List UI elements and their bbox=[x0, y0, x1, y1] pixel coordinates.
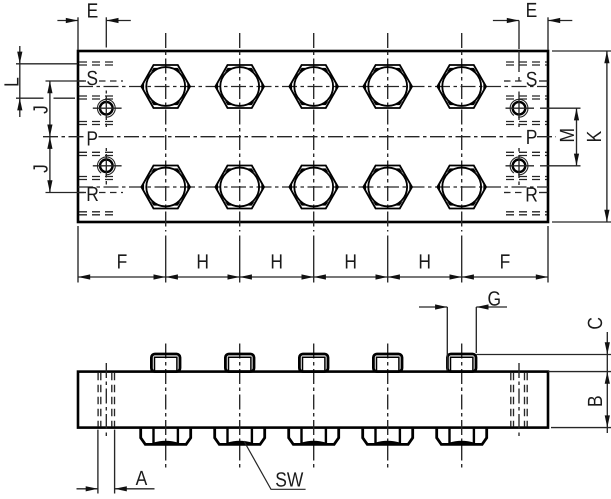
hex nut top row 1 bbox=[141, 65, 190, 108]
P channel walls bbox=[79, 121, 118, 123]
svg-text:R: R bbox=[86, 183, 99, 206]
R channel walls bbox=[79, 176, 118, 178]
P centerline bbox=[43, 136, 86, 138]
crosshair port bottom-right bbox=[506, 165, 535, 167]
hex nut bottom row 3 bbox=[289, 166, 338, 209]
dimension L bbox=[16, 63, 78, 65]
side centerline column 2 bbox=[239, 344, 241, 470]
svg-text:J: J bbox=[30, 105, 53, 114]
svg-text:S: S bbox=[526, 68, 538, 91]
crosshair port top-left bbox=[93, 107, 122, 109]
hex nut 4 (side view) bbox=[363, 429, 413, 445]
row S centerline bbox=[78, 86, 548, 88]
plate outline (top view) bbox=[78, 51, 548, 222]
port hole bottom-right bbox=[510, 157, 528, 175]
svg-text:R: R bbox=[525, 183, 538, 206]
hidden hole left bbox=[97, 373, 99, 427]
plug 2 (side view) bbox=[225, 354, 254, 372]
column centerline 4 bbox=[387, 33, 389, 232]
crosshair port bottom-left bbox=[93, 165, 122, 167]
dimension C bbox=[476, 354, 611, 356]
svg-text:L: L bbox=[1, 77, 24, 87]
port hole top-left bbox=[97, 99, 115, 117]
svg-text:P: P bbox=[526, 126, 538, 149]
hex nut bottom row 2 bbox=[215, 166, 264, 209]
svg-text:B: B bbox=[584, 395, 607, 407]
hex nut bottom row 4 bbox=[363, 166, 412, 209]
hex nut top row 5 bbox=[437, 65, 486, 108]
dimension J upper bbox=[46, 80, 85, 82]
hex nut 2 (side view) bbox=[215, 429, 265, 445]
plug 5 (side view) bbox=[447, 354, 476, 372]
column centerline 2 bbox=[239, 33, 241, 232]
dimension A bbox=[97, 430, 99, 494]
svg-text:J: J bbox=[30, 164, 53, 173]
S label line bbox=[79, 80, 86, 82]
svg-text:G: G bbox=[488, 287, 502, 310]
hex nut 3 (side view) bbox=[289, 429, 339, 445]
plug 3 (side view) bbox=[299, 354, 328, 372]
bar outline (side view) bbox=[78, 372, 548, 428]
dimension E right bbox=[518, 21, 520, 50]
svg-text:M: M bbox=[556, 128, 579, 143]
side centerline column 5 bbox=[461, 344, 463, 470]
column centerline 3 bbox=[313, 33, 315, 232]
S channel walls bbox=[79, 61, 118, 63]
svg-text:H: H bbox=[196, 251, 209, 274]
side centerline left port bbox=[105, 363, 107, 437]
port hole bottom-left bbox=[97, 157, 115, 175]
hex nut bottom row 5 bbox=[437, 166, 486, 209]
svg-text:F: F bbox=[500, 251, 511, 274]
svg-text:H: H bbox=[270, 251, 283, 274]
svg-text:E: E bbox=[526, 0, 538, 22]
hex nut 1 (side view) bbox=[141, 429, 191, 445]
dimension chain F-H-H-H-H-F bbox=[77, 226, 79, 283]
hex nut top row 2 bbox=[215, 65, 264, 108]
hex nut top row 4 bbox=[363, 65, 412, 108]
hidden hole right bbox=[510, 373, 512, 427]
dimension B bbox=[551, 427, 611, 429]
column centerline 5 bbox=[461, 33, 463, 232]
svg-text:F: F bbox=[117, 251, 128, 274]
svg-text:H: H bbox=[418, 251, 431, 274]
svg-text:S: S bbox=[86, 67, 98, 90]
dimension K bbox=[552, 50, 611, 52]
side centerline column 1 bbox=[165, 344, 167, 470]
hex nut bottom row 1 bbox=[141, 166, 190, 209]
svg-text:H: H bbox=[344, 251, 357, 274]
svg-text:K: K bbox=[583, 130, 606, 142]
R label line bbox=[79, 192, 86, 194]
side centerline right port bbox=[518, 363, 520, 437]
plug 4 (side view) bbox=[373, 354, 402, 372]
dimension E left bbox=[77, 17, 79, 50]
svg-text:A: A bbox=[136, 467, 148, 490]
dimension M bbox=[540, 107, 581, 109]
column centerline 1 bbox=[165, 33, 167, 232]
hex nut top row 3 bbox=[289, 65, 338, 108]
crosshair port top-right bbox=[506, 107, 535, 109]
label SW with leader bbox=[244, 441, 306, 489]
row R centerline bbox=[78, 186, 548, 188]
svg-text:E: E bbox=[87, 0, 99, 23]
svg-text:C: C bbox=[584, 317, 607, 330]
plug 1 (side view) bbox=[151, 354, 180, 372]
port hole top-right bbox=[510, 99, 528, 117]
dimension J lower bbox=[46, 192, 85, 194]
svg-text:P: P bbox=[86, 127, 98, 150]
svg-text:SW: SW bbox=[275, 469, 304, 492]
hex nut 5 (side view) bbox=[437, 429, 487, 445]
side centerline column 4 bbox=[387, 344, 389, 470]
dimension G bbox=[446, 307, 448, 371]
side centerline column 3 bbox=[313, 344, 315, 470]
